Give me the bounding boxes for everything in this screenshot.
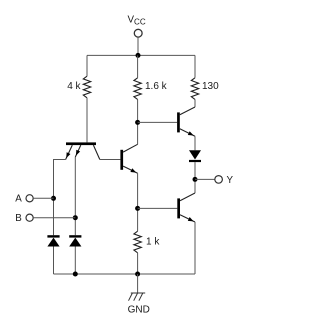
wire Q3 emitter to D3: [194, 136, 196, 150]
transistor Q1 multi-emitter input: [66, 142, 100, 159]
wire R3 bottom to Q3 collector: [194, 99, 196, 107]
wire A node down to D1: [53, 198, 55, 235]
svg-text:1 k: 1 k: [146, 237, 160, 248]
resistor R2 1.6k: [134, 78, 141, 100]
resistor R1 4k: [83, 76, 90, 98]
diode D3 output level shift: [189, 150, 201, 162]
svg-text:4 k: 4 k: [67, 81, 81, 92]
wire rail to R1 top: [86, 55, 88, 76]
wire rail to R2 top: [137, 55, 139, 77]
wire B terminal to node: [33, 217, 75, 219]
wire rail to R3 top: [194, 55, 196, 77]
wire node to Q4 base: [138, 207, 178, 209]
junction input B node: [73, 215, 78, 220]
transistor Q3 output pull-up: [177, 107, 195, 136]
wire D1 to bottom rail: [53, 247, 55, 275]
wire top rail: [87, 54, 195, 56]
wire D3 to output node: [194, 162, 196, 193]
diode D1 input clamp: [47, 235, 59, 246]
wire Q1 collector to Q2 base: [100, 159, 121, 161]
label VCC: [128, 15, 146, 27]
terminal VCC: [134, 29, 142, 37]
svg-text:CC: CC: [134, 18, 146, 27]
ground symbol: [129, 293, 146, 301]
junction rail GND: [135, 272, 140, 277]
wire GND stub: [137, 274, 139, 293]
svg-text:Y: Y: [227, 175, 234, 186]
wire Q1 emitter2 to input B node: [74, 157, 76, 218]
transistor Q2 phase splitter: [120, 144, 137, 173]
svg-text:B: B: [15, 213, 22, 224]
wire D2 to bottom rail: [74, 247, 76, 275]
diode D2 input clamp: [69, 235, 81, 246]
resistor R4 1k: [134, 231, 141, 253]
terminal B: [26, 214, 33, 221]
wire bottom rail: [54, 273, 196, 275]
wire VCC terminal to top rail: [137, 37, 139, 55]
wire R1 bottom to Q1 base: [86, 98, 88, 143]
transistor Q4 output pull-down: [177, 193, 195, 222]
junction Q3 base node: [135, 120, 140, 125]
terminal A: [26, 195, 33, 202]
wire R2 bottom to Q2 collector: [137, 99, 139, 144]
wire B node down to D2: [74, 218, 76, 236]
wire Q4 emitter to bottom rail: [194, 222, 196, 274]
wire R4 bottom to rail: [137, 253, 139, 274]
wire Q1 emitter1 to input A node: [54, 160, 66, 199]
svg-text:GND: GND: [128, 304, 150, 315]
terminal Y: [215, 176, 223, 184]
svg-text:1.6 k: 1.6 k: [145, 81, 168, 92]
junction rail D2: [73, 272, 78, 277]
resistor R3 130: [191, 78, 198, 100]
wire Q2 emitter down: [137, 173, 139, 231]
wire node to Y terminal: [195, 178, 215, 180]
svg-text:A: A: [15, 194, 22, 205]
wire node to Q3 base: [138, 121, 178, 123]
junction output Y node: [193, 177, 198, 182]
junction Q4 base node: [135, 206, 140, 211]
svg-text:130: 130: [202, 81, 219, 92]
junction input A node: [51, 196, 56, 201]
junction VCC node: [136, 53, 141, 58]
wire A terminal to node: [33, 197, 53, 199]
